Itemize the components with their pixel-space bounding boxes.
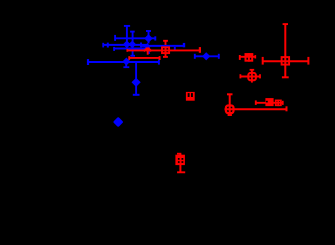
blue diamond D1a (123, 41, 131, 49)
red open circle P5 error bars (240, 70, 260, 83)
vertical error bar V2 (130, 32, 135, 56)
blue diamond D5 horizontal error bar (195, 54, 219, 59)
main horizontal error bar y=44.9 (103, 43, 184, 50)
blue diamond D6 (isolated, rounded) (115, 119, 121, 125)
red big open square P4 error bars (263, 24, 309, 77)
red legend square P6 (186, 92, 195, 101)
vertical error bar V1 (124, 26, 130, 46)
red open circle P7 error bars (225, 94, 287, 115)
blue diamond D2b lower stem (148, 47, 150, 54)
blue diamond D5 (202, 52, 210, 60)
red open circle P7 (226, 106, 234, 114)
blue diamond D3 horizontal error bar (88, 59, 159, 65)
red filled square P8a (265, 98, 273, 106)
red open square P3 with plus (240, 53, 256, 62)
red horizontal error bar y=50.3 (127, 47, 200, 53)
horizontal error bar y=48.2 (114, 47, 148, 51)
blue diamond D2 vertical bar (146, 31, 151, 44)
red big open square P4 (282, 57, 290, 65)
red open circle P5 (248, 73, 256, 80)
blue diamond D1b (128, 41, 136, 49)
red open square P9 vertical error bar (177, 154, 185, 173)
blue diamond D4 (132, 78, 141, 87)
blue diamond D2 (144, 34, 153, 43)
blue diamond D2 horizontal error bar (115, 35, 155, 41)
red horizontal error bar y=58.2 (129, 56, 159, 60)
red open square P9 with plus (175, 155, 185, 165)
red pair P8 horizontal error bar (256, 100, 283, 105)
red open square P1 with plus (162, 46, 169, 54)
red upper-limit arrow (144, 48, 152, 55)
blue diamond D2b (144, 43, 151, 50)
red open square P8b with plus (276, 100, 281, 107)
blue diamond D3 (122, 58, 130, 66)
blue diamond D3 vertical stub (123, 62, 129, 67)
red point P1 vertical error bar (under blue) (163, 41, 168, 57)
blue diamond D4 vertical error bar (133, 62, 140, 95)
blue group (88, 26, 219, 125)
red group (over blue) (127, 24, 308, 172)
